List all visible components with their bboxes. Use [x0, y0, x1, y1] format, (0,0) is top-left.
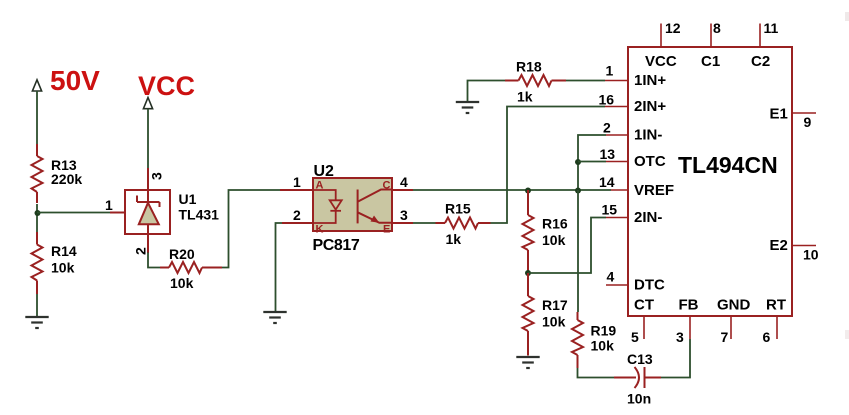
wire R14 to ground: [36, 294, 38, 316]
svg-text:50V: 50V: [50, 65, 100, 96]
svg-text:VCC: VCC: [138, 71, 195, 101]
wire ground to R18: [468, 81, 506, 102]
svg-text:E: E: [383, 224, 390, 236]
wire C13 to IC pin 3 (FB): [661, 339, 690, 378]
junction node VREF-R16: [525, 188, 531, 194]
svg-text:1IN+: 1IN+: [634, 72, 666, 89]
svg-text:3: 3: [400, 207, 408, 223]
svg-text:TL431: TL431: [179, 207, 220, 223]
op-amp U1 TL431 body: [125, 190, 170, 234]
svg-text:R20: R20: [169, 246, 195, 262]
svg-text:10k: 10k: [591, 338, 615, 354]
svg-text:4: 4: [400, 174, 408, 190]
resistor R16: [523, 190, 534, 273]
pin 13 stub IC: [606, 161, 628, 163]
pin 11 stub IC: [759, 24, 761, 48]
wire R15 to IC pin 16 (2IN+): [491, 107, 606, 224]
svg-text:R16: R16: [542, 216, 568, 232]
ground (left divider): [25, 317, 48, 328]
svg-text:DTC: DTC: [634, 277, 665, 294]
svg-text:E2: E2: [770, 237, 788, 254]
pin 14 stub IC: [611, 189, 628, 191]
svg-text:2: 2: [603, 120, 611, 136]
edge artifact lower right: [845, 330, 849, 339]
junction node VREF-R19: [575, 188, 581, 194]
pin 3 stub IC: [689, 316, 691, 339]
wire U2 pin3 to R15: [413, 222, 436, 224]
junction node OTC: [575, 159, 581, 165]
svg-text:1IN-: 1IN-: [634, 127, 662, 144]
pin 16 stub IC: [605, 106, 628, 108]
pin 10 stub IC: [792, 245, 816, 247]
pin 9 stub IC: [792, 112, 816, 114]
svg-text:2: 2: [133, 247, 149, 255]
svg-text:VREF: VREF: [634, 182, 674, 199]
svg-text:R17: R17: [542, 297, 568, 313]
svg-text:U2: U2: [314, 163, 335, 180]
supply symbol VCC arrow: [143, 98, 152, 109]
svg-text:1: 1: [105, 197, 113, 213]
svg-text:R14: R14: [51, 243, 77, 259]
svg-text:U1: U1: [179, 191, 197, 207]
svg-text:11: 11: [764, 20, 779, 36]
transistor inside U2: [358, 190, 392, 224]
wire 50V stem: [36, 91, 38, 144]
supply symbol 50V arrow: [32, 80, 41, 91]
wire U1 pin2 to R20: [148, 253, 161, 268]
transistor emitter arrow: [371, 216, 380, 223]
svg-text:15: 15: [602, 202, 618, 218]
svg-text:1: 1: [606, 63, 614, 79]
resistor R17: [523, 273, 534, 356]
svg-text:PC817: PC817: [313, 237, 360, 254]
svg-text:TL494CN: TL494CN: [678, 152, 778, 178]
junction node R16-R17: [525, 270, 531, 276]
svg-text:10k: 10k: [542, 232, 566, 248]
svg-text:8: 8: [713, 20, 721, 36]
svg-text:10k: 10k: [51, 260, 75, 276]
pin 1 stub U1: [110, 212, 140, 214]
pin 12 stub IC: [660, 24, 662, 48]
capacitor C13: [614, 367, 661, 388]
svg-text:1: 1: [293, 174, 301, 190]
svg-text:1k: 1k: [517, 89, 533, 105]
resistor R13: [32, 144, 43, 203]
svg-text:C1: C1: [701, 53, 720, 70]
IC TL494CN body: [628, 47, 792, 316]
svg-text:13: 13: [600, 146, 616, 162]
resistor R15: [436, 218, 491, 229]
svg-text:CT: CT: [634, 297, 654, 314]
svg-text:GND: GND: [717, 297, 751, 314]
pin 4 stub IC (DTC): [606, 284, 628, 286]
svg-text:C13: C13: [627, 351, 653, 367]
svg-text:K: K: [316, 224, 324, 236]
pin 3 stub U2: [392, 222, 413, 224]
pin 1 stub IC: [605, 80, 628, 82]
resistor R18: [505, 75, 566, 86]
svg-text:16: 16: [599, 92, 615, 108]
svg-text:R15: R15: [445, 201, 471, 217]
svg-text:R18: R18: [516, 59, 542, 75]
wire OTC junction to pin 13 stub: [578, 161, 606, 163]
resistor R14: [32, 232, 43, 294]
pin 15 stub IC: [606, 217, 628, 219]
wire R16/R17 node to IC pin 15 (2IN-): [528, 218, 606, 274]
svg-text:10k: 10k: [170, 275, 194, 291]
svg-text:10n: 10n: [627, 391, 651, 407]
svg-text:OTC: OTC: [634, 153, 666, 170]
pin 5 stub IC: [643, 316, 645, 339]
wire IC pin 2 (1IN-) down to VREF node: [578, 135, 606, 190]
svg-text:RT: RT: [766, 297, 786, 314]
svg-text:7: 7: [721, 329, 729, 345]
svg-text:2IN+: 2IN+: [634, 98, 666, 115]
pin 4 stub U2: [392, 189, 413, 191]
svg-text:2IN-: 2IN-: [634, 209, 662, 226]
pin 1 stub U2: [280, 189, 313, 191]
edge artifact top right: [845, 12, 849, 21]
wire node to U1 pin 1: [37, 212, 110, 214]
svg-text:9: 9: [804, 114, 812, 130]
svg-text:10: 10: [803, 247, 819, 263]
pin 2 stub U2: [282, 222, 313, 224]
pin 2 stub IC: [606, 134, 628, 136]
resistor R19: [572, 312, 583, 368]
pin 3 stub U1: [147, 168, 149, 191]
ground (R18 side): [456, 102, 479, 113]
svg-text:6: 6: [763, 329, 771, 345]
svg-text:220k: 220k: [51, 171, 82, 187]
ground (U2 emitter side): [263, 312, 286, 323]
svg-text:5: 5: [631, 329, 639, 345]
wire R20 up to U2 pin1: [222, 190, 280, 268]
svg-text:1k: 1k: [446, 231, 462, 247]
optocoupler U2 PC817 body: [313, 178, 392, 231]
svg-text:R19: R19: [591, 323, 617, 339]
diode LED inside U2: [313, 190, 342, 223]
svg-text:2: 2: [293, 207, 301, 223]
ground (R17): [516, 357, 539, 368]
pin 2 stub U1: [147, 234, 149, 253]
svg-text:C2: C2: [751, 53, 770, 70]
svg-text:12: 12: [665, 20, 681, 36]
svg-text:3: 3: [676, 329, 684, 345]
svg-text:4: 4: [607, 269, 615, 285]
svg-text:FB: FB: [679, 297, 699, 314]
svg-text:14: 14: [599, 174, 615, 190]
resistor R20: [160, 262, 222, 273]
svg-text:10k: 10k: [542, 314, 566, 330]
pin 7 stub IC: [730, 316, 732, 339]
svg-text:E1: E1: [770, 106, 788, 123]
wire VCC stem: [147, 109, 149, 168]
junction node divider: [35, 210, 41, 216]
wire R19 to C13: [578, 368, 615, 378]
wire U2 pin4 to VREF (net at y=190): [413, 189, 611, 191]
pin 8 stub IC: [710, 24, 712, 48]
wire R18 to IC pin 1 (1IN+): [566, 80, 605, 82]
svg-text:3: 3: [149, 172, 165, 180]
svg-text:VCC: VCC: [645, 53, 677, 70]
pin 6 stub IC: [776, 316, 778, 339]
wire R13 to R14: [36, 204, 38, 232]
wire VREF node down to R19 (crosses 2IN- wire): [577, 190, 579, 312]
wire U2 pin2 to ground: [276, 223, 283, 311]
